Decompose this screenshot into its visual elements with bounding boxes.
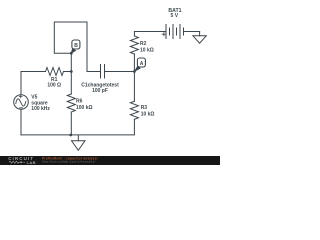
svg-text:B: B	[74, 43, 78, 49]
svg-text:5 V: 5 V	[171, 13, 179, 19]
svg-text:10 kΩ: 10 kΩ	[140, 47, 154, 53]
svg-text:LAB: LAB	[27, 160, 36, 165]
svg-text:100 kΩ: 100 kΩ	[76, 105, 93, 111]
svg-text:http://circuitlab.com/c/xxxxxx: http://circuitlab.com/c/xxxxxxx/	[42, 159, 96, 163]
svg-text:100 Ω: 100 Ω	[47, 83, 61, 89]
svg-text:R2: R2	[140, 41, 147, 47]
svg-text:R6: R6	[76, 98, 83, 104]
svg-text:A: A	[140, 61, 144, 67]
svg-text:10 kΩ: 10 kΩ	[141, 111, 155, 117]
svg-text:100 pF: 100 pF	[92, 88, 108, 94]
svg-text:100 kHz: 100 kHz	[31, 106, 50, 112]
svg-text:R3: R3	[141, 105, 148, 111]
